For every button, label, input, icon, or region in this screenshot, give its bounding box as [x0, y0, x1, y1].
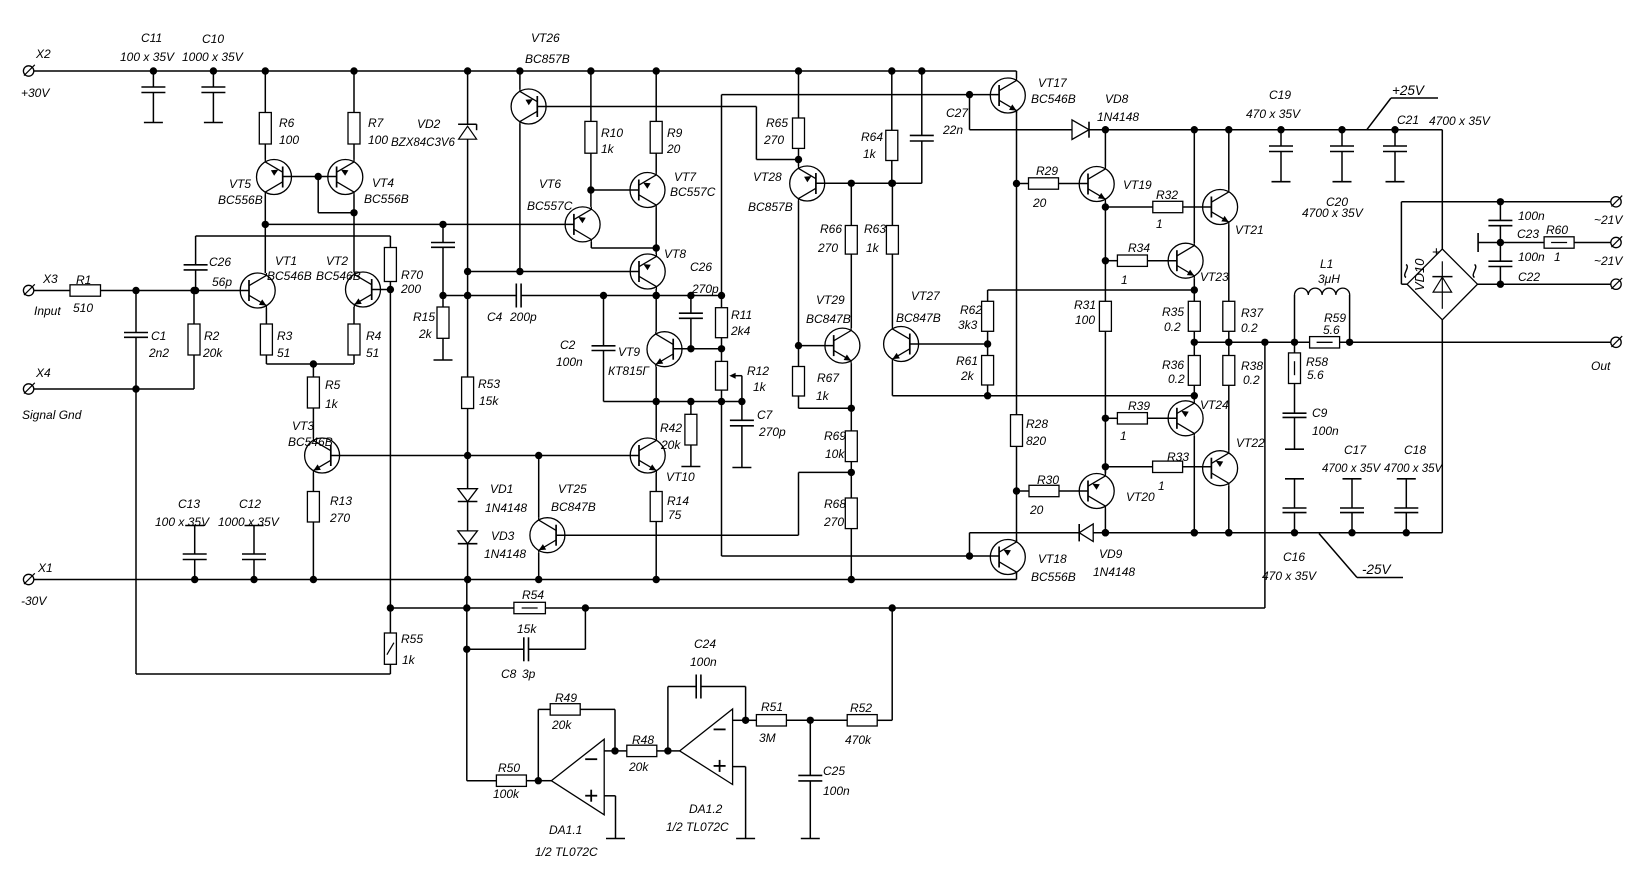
- svg-text:X1: X1: [37, 561, 53, 575]
- svg-text:C26: C26: [209, 255, 231, 269]
- svg-text:0.2: 0.2: [1168, 372, 1185, 386]
- svg-text:VT21: VT21: [1235, 223, 1264, 237]
- svg-text:56p: 56p: [212, 275, 232, 289]
- svg-text:R7: R7: [368, 116, 385, 130]
- svg-text:R61: R61: [956, 354, 978, 368]
- svg-text:1k: 1k: [601, 142, 615, 156]
- svg-text:R33: R33: [1167, 450, 1189, 464]
- svg-text:1N4148: 1N4148: [484, 547, 526, 561]
- svg-text:20: 20: [1032, 196, 1047, 210]
- svg-text:C8: C8: [501, 667, 517, 681]
- svg-text:0.2: 0.2: [1243, 373, 1260, 387]
- svg-text:470 x 35V: 470 x 35V: [1246, 107, 1301, 121]
- svg-text:200p: 200p: [509, 310, 537, 324]
- svg-text:C9: C9: [1312, 406, 1328, 420]
- svg-text:270p: 270p: [691, 282, 719, 296]
- svg-text:R28: R28: [1026, 417, 1048, 431]
- svg-text:VT24: VT24: [1200, 398, 1229, 412]
- svg-text:VT20: VT20: [1126, 490, 1155, 504]
- svg-text:100n: 100n: [1312, 424, 1339, 438]
- svg-text:R38: R38: [1241, 359, 1263, 373]
- svg-text:VT28: VT28: [753, 170, 782, 184]
- svg-text:270p: 270p: [758, 425, 786, 439]
- svg-text:5.6: 5.6: [1323, 323, 1340, 337]
- svg-text:C21: C21: [1397, 113, 1419, 127]
- svg-text:R55: R55: [401, 632, 423, 646]
- svg-text:510: 510: [73, 301, 93, 315]
- svg-text:C13: C13: [178, 497, 200, 511]
- svg-text:VT22: VT22: [1236, 436, 1265, 450]
- svg-text:BC847B: BC847B: [551, 500, 596, 514]
- svg-text:C23: C23: [1517, 227, 1539, 241]
- svg-text:~21V: ~21V: [1594, 213, 1623, 227]
- svg-text:R4: R4: [366, 329, 382, 343]
- svg-text:R15: R15: [413, 310, 435, 324]
- svg-text:R49: R49: [555, 691, 577, 705]
- svg-text:1: 1: [1121, 273, 1128, 287]
- svg-text:100n: 100n: [823, 784, 850, 798]
- svg-text:R54: R54: [522, 588, 544, 602]
- svg-text:R29: R29: [1036, 164, 1058, 178]
- svg-text:75: 75: [668, 508, 682, 522]
- svg-text:C27: C27: [946, 106, 969, 120]
- svg-text:470 x 35V: 470 x 35V: [1262, 569, 1317, 583]
- svg-text:100: 100: [1075, 313, 1095, 327]
- svg-text:R13: R13: [330, 494, 352, 508]
- svg-text:2k4: 2k4: [730, 324, 751, 338]
- svg-text:100k: 100k: [493, 787, 520, 801]
- svg-text:22n: 22n: [942, 123, 963, 137]
- svg-text:1k: 1k: [866, 241, 880, 255]
- svg-text:BC557C: BC557C: [670, 185, 716, 199]
- svg-text:Input: Input: [34, 304, 61, 318]
- svg-text:+: +: [1432, 244, 1441, 261]
- svg-text:-30V: -30V: [21, 594, 47, 608]
- svg-text:R36: R36: [1162, 358, 1184, 372]
- svg-text:1k: 1k: [753, 380, 767, 394]
- svg-text:C16: C16: [1283, 550, 1305, 564]
- svg-text:R64: R64: [861, 130, 883, 144]
- svg-text:20k: 20k: [551, 718, 572, 732]
- svg-text:R3: R3: [277, 329, 293, 343]
- svg-text:VD3: VD3: [491, 529, 515, 543]
- svg-text:Out: Out: [1591, 359, 1611, 373]
- svg-text:3μH: 3μH: [1318, 272, 1340, 286]
- svg-text:R70: R70: [401, 268, 423, 282]
- svg-text:VT3: VT3: [292, 419, 314, 433]
- svg-text:VT26: VT26: [531, 31, 560, 45]
- svg-text:3M: 3M: [759, 731, 776, 745]
- svg-text:20k: 20k: [202, 346, 223, 360]
- svg-text:C7: C7: [757, 408, 774, 422]
- svg-text:R51: R51: [761, 700, 783, 714]
- svg-text:1000 x 35V: 1000 x 35V: [218, 515, 280, 529]
- svg-text:R68: R68: [824, 497, 846, 511]
- svg-text:820: 820: [1026, 434, 1046, 448]
- svg-text:1N4148: 1N4148: [485, 501, 527, 515]
- svg-text:VD10: VD10: [1412, 258, 1427, 291]
- svg-text:R67: R67: [817, 371, 840, 385]
- svg-text:VT17: VT17: [1038, 76, 1068, 90]
- svg-text:100 x 35V: 100 x 35V: [120, 50, 175, 64]
- svg-text:C2: C2: [560, 338, 576, 352]
- svg-text:5.6: 5.6: [1307, 368, 1324, 382]
- svg-text:270: 270: [329, 511, 350, 525]
- svg-text:270: 270: [817, 241, 838, 255]
- svg-text:VT19: VT19: [1123, 178, 1152, 192]
- svg-text:R65: R65: [766, 116, 788, 130]
- svg-text:X3: X3: [42, 272, 58, 286]
- svg-text:100: 100: [368, 133, 388, 147]
- svg-text:R30: R30: [1037, 473, 1059, 487]
- svg-text:VT4: VT4: [372, 176, 394, 190]
- svg-text:Signal Gnd: Signal Gnd: [22, 408, 82, 422]
- svg-text:C26: C26: [690, 260, 712, 274]
- svg-text:+30V: +30V: [21, 86, 50, 100]
- svg-text:VD8: VD8: [1105, 92, 1129, 106]
- svg-text:R50: R50: [498, 761, 520, 775]
- svg-text:1/2 TL072C: 1/2 TL072C: [666, 820, 729, 834]
- svg-text:X4: X4: [35, 366, 51, 380]
- svg-text:L1: L1: [1320, 257, 1333, 271]
- svg-text:1k: 1k: [863, 147, 877, 161]
- svg-text:C25: C25: [823, 764, 845, 778]
- svg-text:C10: C10: [202, 32, 224, 46]
- svg-text:51: 51: [366, 346, 379, 360]
- svg-text:1k: 1k: [402, 653, 416, 667]
- svg-text:R53: R53: [478, 377, 500, 391]
- svg-text:20: 20: [666, 142, 681, 156]
- svg-text:3p: 3p: [522, 667, 536, 681]
- svg-text:BZX84C3V6: BZX84C3V6: [391, 137, 456, 149]
- svg-text:VT7: VT7: [674, 170, 697, 184]
- svg-text:BC546B: BC546B: [267, 269, 312, 283]
- svg-text:4700 x 35V: 4700 x 35V: [1429, 114, 1491, 128]
- svg-text:C4: C4: [487, 310, 503, 324]
- svg-text:1N4148: 1N4148: [1093, 565, 1135, 579]
- svg-text:R37: R37: [1241, 306, 1264, 320]
- svg-text:VT9: VT9: [618, 345, 640, 359]
- svg-text:R42: R42: [660, 421, 682, 435]
- svg-text:VT10: VT10: [666, 470, 695, 484]
- svg-text:VT25: VT25: [558, 482, 587, 496]
- svg-text:VT23: VT23: [1200, 270, 1229, 284]
- svg-text:R14: R14: [667, 494, 689, 508]
- svg-text:+25V: +25V: [1392, 83, 1426, 98]
- svg-text:DA1.2: DA1.2: [689, 802, 723, 816]
- svg-text:100n: 100n: [690, 655, 717, 669]
- svg-text:270: 270: [763, 133, 784, 147]
- svg-text:0.2: 0.2: [1164, 320, 1181, 334]
- svg-text:R6: R6: [279, 116, 295, 130]
- svg-text:C17: C17: [1344, 443, 1367, 457]
- svg-text:2k: 2k: [960, 369, 975, 383]
- svg-text:1: 1: [1554, 250, 1561, 264]
- svg-text:R12: R12: [747, 364, 769, 378]
- svg-text:470k: 470k: [845, 733, 872, 747]
- svg-text:BC857B: BC857B: [525, 52, 570, 66]
- svg-text:51: 51: [277, 346, 290, 360]
- svg-text:270: 270: [823, 515, 844, 529]
- svg-text:R11: R11: [731, 308, 752, 322]
- svg-text:R66: R66: [820, 222, 842, 236]
- svg-text:BC556B: BC556B: [218, 193, 263, 207]
- svg-text:BC847B: BC847B: [806, 312, 851, 326]
- svg-text:20k: 20k: [628, 760, 649, 774]
- svg-text:C18: C18: [1404, 443, 1426, 457]
- svg-text:4700 x 35V: 4700 x 35V: [1384, 463, 1444, 475]
- svg-text:X2: X2: [35, 47, 51, 61]
- svg-text:R62: R62: [960, 303, 982, 317]
- svg-text:4700 x 35V: 4700 x 35V: [1302, 206, 1364, 220]
- svg-text:R48: R48: [632, 733, 654, 747]
- svg-text:VT8: VT8: [664, 247, 686, 261]
- svg-text:1N4148: 1N4148: [1097, 110, 1139, 124]
- svg-text:R39: R39: [1128, 399, 1150, 413]
- svg-text:15k: 15k: [517, 622, 537, 636]
- svg-text:BC857B: BC857B: [748, 200, 793, 214]
- svg-text:20: 20: [1029, 503, 1044, 517]
- svg-text:200: 200: [400, 282, 421, 296]
- svg-text:100 x 35V: 100 x 35V: [155, 515, 210, 529]
- svg-text:R58: R58: [1306, 355, 1328, 369]
- svg-text:-25V: -25V: [1362, 562, 1393, 577]
- svg-text:R52: R52: [850, 701, 872, 715]
- svg-text:15k: 15k: [479, 394, 499, 408]
- svg-text:BC546B: BC546B: [316, 269, 361, 283]
- svg-text:2k: 2k: [418, 327, 433, 341]
- svg-text:VD1: VD1: [490, 482, 513, 496]
- svg-text:1k: 1k: [325, 397, 339, 411]
- svg-text:R34: R34: [1128, 241, 1150, 255]
- svg-text:VD2: VD2: [417, 117, 441, 131]
- svg-text:R2: R2: [204, 329, 220, 343]
- svg-text:R69: R69: [824, 429, 846, 443]
- svg-text:R32: R32: [1156, 188, 1178, 202]
- svg-text:R63: R63: [864, 222, 886, 236]
- svg-text:C24: C24: [694, 637, 716, 651]
- svg-text:100: 100: [279, 133, 299, 147]
- svg-text:100n: 100n: [1518, 250, 1545, 264]
- svg-text:VT1: VT1: [275, 254, 297, 268]
- svg-text:C12: C12: [239, 497, 261, 511]
- svg-text:VT6: VT6: [539, 177, 561, 191]
- svg-text:C1: C1: [151, 329, 166, 343]
- svg-text:R60: R60: [1546, 223, 1568, 237]
- svg-text:1k: 1k: [816, 389, 830, 403]
- svg-text:BC546B: BC546B: [1031, 92, 1076, 106]
- svg-text:VT27: VT27: [911, 289, 941, 303]
- svg-text:VT2: VT2: [326, 254, 348, 268]
- svg-text:C22: C22: [1518, 270, 1540, 284]
- svg-text:VD9: VD9: [1099, 547, 1123, 561]
- svg-text:3k3: 3k3: [958, 318, 978, 332]
- svg-text:КТ815Г: КТ815Г: [608, 364, 650, 378]
- svg-text:100n: 100n: [1518, 209, 1545, 223]
- svg-text:100n: 100n: [556, 355, 583, 369]
- svg-text:1: 1: [1156, 217, 1163, 231]
- svg-text:R5: R5: [325, 378, 341, 392]
- svg-text:1/2 TL072C: 1/2 TL072C: [535, 845, 598, 859]
- svg-text:1000 x 35V: 1000 x 35V: [182, 50, 244, 64]
- svg-text:1: 1: [1158, 479, 1165, 493]
- svg-text:BC556B: BC556B: [1031, 570, 1076, 584]
- svg-text:2n2: 2n2: [148, 346, 169, 360]
- svg-text:VT18: VT18: [1038, 552, 1067, 566]
- svg-text:~21V: ~21V: [1594, 254, 1623, 268]
- svg-text:10k: 10k: [825, 447, 845, 461]
- svg-text:20k: 20k: [660, 438, 681, 452]
- svg-text:VT29: VT29: [816, 293, 845, 307]
- svg-text:C11: C11: [141, 31, 162, 45]
- svg-text:BC556B: BC556B: [364, 192, 409, 206]
- svg-text:0.2: 0.2: [1241, 321, 1258, 335]
- svg-text:R9: R9: [667, 126, 683, 140]
- svg-text:4700 x 35V: 4700 x 35V: [1322, 463, 1382, 475]
- svg-text:DA1.1: DA1.1: [549, 823, 582, 837]
- svg-text:R31: R31: [1074, 298, 1096, 312]
- svg-text:R35: R35: [1162, 305, 1184, 319]
- svg-text:VT5: VT5: [229, 177, 251, 191]
- svg-text:R10: R10: [601, 126, 623, 140]
- svg-text:BC546B: BC546B: [288, 435, 333, 449]
- svg-text:BC557C: BC557C: [527, 199, 573, 213]
- svg-text:C19: C19: [1269, 88, 1291, 102]
- svg-text:R1: R1: [76, 273, 91, 287]
- svg-text:1: 1: [1120, 429, 1127, 443]
- svg-text:BC847B: BC847B: [896, 311, 941, 325]
